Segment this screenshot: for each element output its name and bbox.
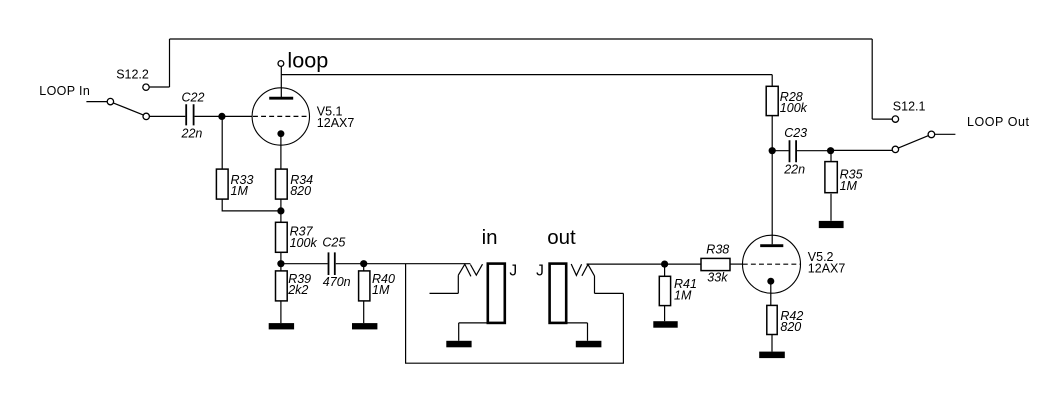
svg-text:1M: 1M xyxy=(231,184,249,198)
svg-text:S12.2: S12.2 xyxy=(116,67,149,81)
svg-text:loop: loop xyxy=(287,47,328,72)
svg-text:C25: C25 xyxy=(322,236,345,250)
svg-text:1M: 1M xyxy=(674,288,692,302)
svg-text:in: in xyxy=(482,226,498,249)
svg-text:22n: 22n xyxy=(783,163,805,177)
svg-text:out: out xyxy=(547,226,576,249)
svg-text:22n: 22n xyxy=(181,126,203,140)
svg-text:820: 820 xyxy=(290,184,311,198)
svg-text:12AX7: 12AX7 xyxy=(808,262,846,276)
svg-text:S12.1: S12.1 xyxy=(893,99,926,113)
svg-text:100k: 100k xyxy=(290,236,318,250)
svg-text:820: 820 xyxy=(780,320,801,334)
svg-text:C22: C22 xyxy=(182,91,205,105)
svg-text:12AX7: 12AX7 xyxy=(317,116,355,130)
svg-text:1M: 1M xyxy=(372,283,390,297)
svg-text:J: J xyxy=(536,263,544,280)
svg-text:470n: 470n xyxy=(323,275,351,289)
svg-text:100k: 100k xyxy=(780,101,808,115)
svg-text:J: J xyxy=(509,263,517,280)
svg-text:1M: 1M xyxy=(840,179,858,193)
svg-text:R38: R38 xyxy=(706,242,729,256)
svg-text:2k2: 2k2 xyxy=(287,283,308,297)
svg-text:33k: 33k xyxy=(707,270,728,284)
svg-text:C23: C23 xyxy=(784,126,807,140)
svg-text:LOOP Out: LOOP Out xyxy=(967,115,1030,129)
svg-text:LOOP In: LOOP In xyxy=(39,84,90,98)
